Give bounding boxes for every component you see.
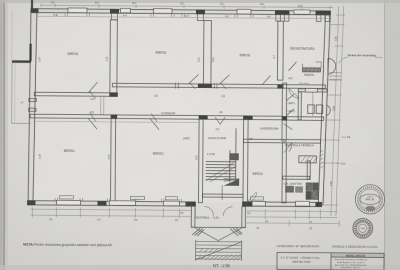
junction chunk casa scarii right [243,116,253,120]
stair top V marks [215,117,225,124]
scan edge left dark line [3,0,4,270]
door UR1 leaf [286,94,294,101]
right dim line 2 [336,6,344,216]
column stub below x274 b [284,15,289,22]
corridor inner face line [33,121,199,122]
porch descent V arrows [195,228,241,241]
window W-bot-1 [56,200,80,205]
window W-top-4 [294,10,310,14]
junction chunk P4 corridor [277,84,283,88]
bottom exterior wall left part [27,201,195,207]
column top wall x274 [275,10,290,15]
terrace corner dark vertical [29,44,31,62]
boiler hatch [301,156,318,163]
bottom dim ticks [32,207,320,219]
window edge ticks top wall [65,13,253,17]
door UR2 leaf [286,109,294,116]
right exterior wall [318,15,330,205]
beam line under top wall [37,16,328,18]
column stub below corner right b [325,15,330,22]
steps diagonal [196,241,242,260]
stamp large inner ellipse [360,194,380,205]
stamp small outer [353,218,373,238]
door U3 leaf lower room2 [150,119,159,130]
extension lines right [319,25,336,205]
door jamb marks right section [151,82,226,122]
wc partition 2 [312,92,314,116]
right dim ticks [329,15,345,205]
top edge shade [0,0,400,3]
vestibul door arcs [204,207,232,216]
steps hatch [197,248,242,260]
wc fixture 2 [316,105,323,114]
stamp large bottom smudge [365,206,375,211]
terrace inner line [14,63,16,123]
bottom edge shade [0,265,400,270]
peron steps outside right wall [329,73,341,80]
door arc CT [284,143,292,153]
radiator under window 2 [130,196,144,199]
scan left light strip [5,0,8,270]
junction chunk P1 corridor [109,93,118,97]
window edge ticks bottom wall [55,198,182,202]
door U3 leaf lower room1 [88,118,97,129]
casa scarii right wall [243,120,248,204]
wall right block vertical x280 [282,83,287,141]
stamp small inner [359,224,367,232]
peron slab hatched [302,68,320,72]
stair diagonal cut [206,161,236,182]
terrace top dark bar [12,60,32,63]
building interior light wash [33,14,328,202]
wc top wall [298,89,327,92]
partition bottom rooms [110,119,115,202]
stair small dark block [230,154,239,160]
gr sanitar fixture c3 [306,191,312,199]
corridor bottom wall [30,114,283,120]
column bottom x243 [242,202,252,207]
terrace outline [12,63,31,124]
fire escape inner line [327,61,329,72]
corridor bottom wall right section [283,117,324,121]
peron connect line [303,62,322,68]
porch front edge [191,226,245,228]
column top wall x196 [196,10,205,15]
window W-bot-5 [295,201,309,206]
left wall door recess [20,98,36,111]
junction chunk partition bottom [111,115,118,119]
gr sanitar right wall [307,161,310,180]
radiator under window 4 [250,197,263,200]
column bottom x100 [97,201,106,206]
door U3 leaf room1 [88,82,97,93]
partition wall P3 rooms 2-3 [203,21,211,85]
window W-top-1 [68,8,87,13]
window W-top-1b [120,9,130,13]
faint fold left [11,11,13,63]
door birou mid bottom [247,192,257,202]
top exterior wall [31,9,331,15]
porch wing hatch right [230,228,242,236]
porch wing hatch left [192,228,204,236]
wc sink bump outside [326,105,330,116]
wc fixture 1 [308,105,315,114]
door jamb marks U3 top [90,91,96,121]
corridor top wall left section [34,92,117,96]
stair flight edge [235,128,237,182]
corridor top wall right section [112,83,325,88]
garderoba bottom wall / CT top wall [243,139,320,143]
gr sanitar fixture c4 [312,191,318,199]
column stub below x110 [111,13,117,20]
stair lower flight dark wedge [224,179,240,186]
junction chunk casa scarii left [199,115,208,119]
bottom exterior wall right part [242,202,321,207]
column top wall corner left [31,8,39,13]
window W-bot-4 [247,201,265,206]
column bottom corner left [27,200,35,205]
window W-top-3 [237,9,251,14]
gr sanitar fixture c1 [306,183,312,191]
junction chunk garderoba right [282,116,288,120]
corner wall extension to top edge [31,0,33,9]
peron slab hatch strokes [304,68,319,72]
right-of-fold shade [385,0,400,270]
title block header underline [331,256,384,258]
door swing marks corridor [262,75,270,84]
top dim ticks [41,3,330,9]
bottom dim line 2 [30,215,337,217]
right dim line 1 [331,6,339,216]
CT left wall vertical [282,143,286,203]
door U3 leaf room2 [188,74,198,84]
stamp large inner circle [360,189,381,210]
window W-bot-2 [109,201,135,206]
porch right wall [242,207,246,228]
casa scarii left wall [198,119,203,203]
gr sanitar fixture b [296,187,303,193]
title block header shade [331,253,384,258]
window W-bot-3 [163,201,179,206]
door frame lines corridor [101,97,104,115]
title block divider [330,253,332,270]
door arc garderoba [284,124,293,130]
door U4 leaf room3 [219,75,229,85]
partition wall P4 registratura left [277,21,283,80]
wc window [305,88,317,92]
room labels [68,45,316,58]
radiator under window 3 [165,197,177,200]
column top wall x110 [110,9,119,14]
partition wall P1 x~110 [110,20,118,93]
fold line right [384,0,385,270]
column top wall corner right [315,11,330,16]
door arc registratura lower [289,88,300,98]
stair treads [206,162,236,180]
bottom dim line 1 [30,209,337,211]
lower right dim line [245,220,339,227]
column stub below x274 a [276,15,281,22]
boiler hatched [299,156,317,163]
steps [196,240,242,261]
window W-top-2 [153,9,172,14]
gr sanitar fixture c2 [313,183,319,191]
column stub corner left [36,13,38,19]
radiator under window 1 [59,196,73,199]
leader F9 [337,137,346,164]
scan edge left dark strip [0,0,3,270]
stamp small text ring [356,221,371,236]
stair lower flight edge lines [222,179,239,201]
column stub below corner right a [316,15,321,22]
CT inner partition gr sanitar top [283,176,310,179]
door recess left wall lower [29,108,36,111]
wc partition vertical [298,92,301,120]
column bottom corner right [315,202,322,207]
gr sanitar fixture a [286,186,294,192]
leader line scara [339,57,383,64]
junction chunk P3 corridor [198,84,212,88]
CT right wall hatch bar [321,150,324,168]
title block frame [277,252,384,270]
door registratura leaf [289,62,297,71]
gr sanitar fixture hatch [307,183,318,199]
stamp large outer [355,185,384,214]
fire escape semicircle [328,59,336,75]
vestibul top wall [203,194,244,197]
left exterior wall [28,9,37,202]
column bottom x186 [185,202,195,207]
door recess left wall [29,98,36,101]
column stub below x196 [197,14,203,21]
dimension line top [41,5,333,7]
stamp large text ring [358,187,383,212]
porch left wall [191,206,195,227]
